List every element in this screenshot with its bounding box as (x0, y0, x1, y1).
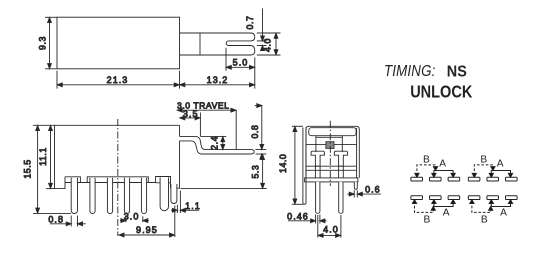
center line of body (117, 119, 119, 236)
svg-text:A: A (443, 208, 450, 219)
pin 7 (short) (171, 184, 177, 204)
svg-text:0.8: 0.8 (250, 125, 260, 139)
schematic group 3: throw A link (434, 201, 453, 207)
front view: contact stems to base (315, 166, 343, 178)
dimension 0.8 (pin width) (48, 214, 85, 226)
dimension 2.4 (lever step height) (200, 136, 226, 150)
svg-text:4.0: 4.0 (262, 38, 272, 52)
schematic group 2: throw B link (dashed) (474, 165, 493, 176)
side view: switch body outline (57, 17, 180, 69)
svg-text:3.0: 3.0 (124, 212, 140, 222)
side view: slotted actuator shaft (forked) (180, 33, 255, 55)
svg-text:13.2: 13.2 (207, 75, 229, 85)
dimension 0.46 (pin thickness) (287, 212, 326, 224)
schematic group 4: throw B link (dashed) (472, 201, 491, 212)
svg-text:9.3: 9.3 (38, 36, 48, 50)
schematic group 1: terminal 1 (411, 177, 423, 181)
svg-text:B: B (481, 215, 488, 226)
pin 5 (141, 178, 146, 214)
schematic group 1: throw B link (dashed) (417, 165, 436, 176)
schematic group 4: terminal 1 (468, 196, 480, 200)
schematic group 3: terminal 3 (448, 196, 460, 200)
schematic group 2: terminal 1 (468, 177, 480, 181)
svg-text:0.6: 0.6 (365, 185, 381, 195)
schematic group 4: terminal 3 (506, 196, 518, 200)
dimension 15.5 (total height) (23, 125, 71, 213)
front view: internal shelf line (306, 143, 357, 145)
dimension 3.0 TRAVEL (177, 101, 236, 150)
dimension 21.3 (body width) (57, 71, 180, 89)
front view: short stub pin (354, 182, 357, 189)
pin 2 (90, 178, 95, 214)
svg-text:5.0: 5.0 (233, 58, 249, 68)
svg-text:21.3: 21.3 (107, 75, 129, 85)
svg-text:A: A (497, 159, 504, 170)
svg-text:0.7: 0.7 (245, 16, 255, 30)
front view: base lines (306, 166, 357, 170)
mounted side view: bottom face and pin shoulder boxes (65, 177, 180, 189)
dimension 4.0 (pin spacing, front) (318, 215, 341, 238)
svg-text:A: A (439, 159, 446, 170)
dimension 9.95 (pin span) (119, 206, 175, 238)
svg-text:3.5: 3.5 (183, 109, 199, 119)
svg-text:0.8: 0.8 (48, 214, 64, 224)
svg-text:5.3: 5.3 (250, 165, 260, 179)
schematic group 2: terminal 3 (506, 177, 518, 181)
schematic group 1: throw A link (434, 171, 453, 177)
schematic group 3: terminal 2 (430, 196, 442, 200)
schematic group 2: terminal 2 (487, 177, 499, 181)
dimension 5.3 (lever height above seating) (250, 154, 264, 188)
schematic group 1: terminal 3 (448, 177, 460, 181)
dimension 14.0 (front view height) (278, 126, 303, 204)
dimension 5.0 (slot depth) (226, 48, 255, 71)
front view: center line (329, 121, 331, 186)
pin 4 (124, 178, 129, 214)
front view: right contact rivet (334, 151, 347, 166)
schematic group 4: terminal 2 (487, 196, 499, 200)
schematic group 4: throw A link (491, 201, 510, 207)
svg-text:A: A (500, 208, 507, 219)
dimension 11.1 (body to seating plane) (38, 125, 54, 188)
schematic group 3: terminal 1 (411, 196, 423, 200)
front view: lever strip seen end-on (303, 128, 306, 205)
front view: shaft channel (316, 136, 342, 152)
pin 6 (160, 177, 168, 210)
dimension 0.8 (lever thickness) (250, 104, 266, 159)
svg-text:B: B (424, 215, 431, 226)
front view: left contact rivet (311, 151, 324, 166)
svg-text:0.46: 0.46 (287, 212, 309, 222)
svg-text:9.95: 9.95 (136, 225, 158, 235)
svg-text:NS: NS (447, 63, 467, 81)
mounted side view: actuator lever (Z-bend) (180, 136, 255, 154)
schematic group 2: throw A link (491, 171, 510, 177)
dimension 1.1 (last pin to edge) (171, 191, 201, 214)
mounted side view: body outline with bottom profile (55, 125, 180, 188)
dimension 0.7 (slot width) (245, 9, 266, 51)
dimension 3.0 (pin pitch) (120, 212, 149, 223)
pin 3 (107, 178, 112, 214)
seating plane extension line (181, 188, 267, 190)
schematic group 1: terminal 2 (430, 177, 442, 181)
svg-text:1.1: 1.1 (185, 201, 201, 211)
schematic group 3: throw B link (dashed) (415, 201, 434, 212)
front view: inner right wall (356, 128, 358, 178)
svg-text:2.4: 2.4 (210, 136, 220, 150)
front view: left pin (316, 182, 320, 213)
pin 1 (71, 178, 77, 214)
front view: body outline (306, 126, 359, 178)
front view: top cap strip (309, 128, 356, 136)
front view: right pin (339, 182, 343, 213)
front view: slot window (326, 142, 334, 149)
dimension 13.2 (shaft length) (180, 57, 255, 88)
svg-text:B: B (423, 154, 430, 165)
dimension 3.5 (lever bend offset) (180, 109, 201, 136)
dimension 0.6 (stub pin width) (347, 185, 381, 198)
dimension 9.3 (body height) (38, 17, 57, 69)
svg-text:11.1: 11.1 (38, 147, 48, 166)
svg-text:UNLOCK: UNLOCK (410, 82, 472, 102)
svg-text:4.0: 4.0 (323, 225, 339, 235)
svg-text:15.5: 15.5 (23, 159, 33, 178)
side view: shaft cross line (199, 33, 201, 55)
svg-text:B: B (480, 154, 487, 165)
front view: bottom flange (305, 178, 358, 182)
svg-text:14.0: 14.0 (278, 154, 288, 173)
svg-text:TIMING:: TIMING: (384, 63, 435, 80)
dimension 4.0 (shaft height) (257, 33, 281, 55)
